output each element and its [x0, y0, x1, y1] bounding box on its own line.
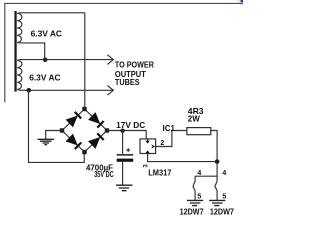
wire: bridge minus to ground	[46, 131, 62, 139]
node: adj / resistor junction	[215, 159, 220, 164]
node: bridge bottom vertex	[82, 150, 86, 154]
scan artifact (top-right corner)	[237, 0, 243, 7]
wire: branch to tube 1 heater	[195, 175, 217, 177]
arrowhead lower	[107, 86, 113, 96]
transformer winding 6.3V AC (upper)	[17, 13, 22, 43]
ground (bridge negative)	[38, 139, 55, 144]
arrowhead upper	[107, 55, 113, 65]
svg-text:2W: 2W	[188, 114, 201, 124]
wire: LM317 adj pin down and right	[148, 154, 218, 162]
node: bridge right vertex	[105, 128, 109, 132]
svg-text:LM317: LM317	[148, 169, 172, 178]
wire: heater feed down	[216, 162, 218, 182]
svg-text:2: 2	[160, 140, 164, 147]
svg-text:5: 5	[222, 194, 226, 201]
capacitor C1 plus sign	[126, 148, 130, 152]
capacitor C1 top plate	[117, 154, 134, 156]
wire: resistor right down to adj node	[211, 131, 217, 162]
wire: bridge plus 17V DC rail to LM317 input	[107, 131, 146, 139]
node: junction to bridge AC2	[27, 88, 32, 93]
wire: upper winding bottom jog	[20, 43, 45, 60]
pin 3 input arrow (top, pointing down)	[147, 139, 149, 141]
svg-text:35V DC: 35V DC	[94, 170, 114, 179]
ground (tube V2)	[209, 200, 225, 205]
capacitor C1 lower lead	[122, 162, 124, 185]
tube V1 heater filament	[193, 176, 195, 200]
border frame (left edge)	[4, 3, 6, 102]
op-amp regulator IC1 LM317 box	[140, 139, 156, 154]
wire: AC2 route down and across to bridge bottom vertex	[29, 90, 85, 162]
svg-text:3: 3	[144, 164, 150, 168]
svg-text:12DW7: 12DW7	[210, 207, 234, 216]
diode D3 (left to bottom)	[67, 135, 82, 150]
svg-text:6.3V AC: 6.3V AC	[29, 73, 60, 83]
transformer T1 core	[14, 11, 16, 92]
wire: upper winding top to bridge (top AC)	[20, 12, 85, 14]
diode D4 (bottom to right)	[89, 133, 104, 148]
svg-text:TO POWER: TO POWER	[115, 61, 154, 70]
capacitor C1 bottom plate	[117, 159, 134, 162]
resistor R1 4R3 2W body	[187, 128, 211, 135]
bridge rectifier diamond	[62, 109, 107, 152]
wire: pin2 output up to resistor	[156, 131, 187, 147]
tube V2 heater filament	[215, 181, 217, 200]
svg-text:4: 4	[197, 170, 201, 177]
diode D1 (left to top)	[67, 112, 82, 127]
ground (tube V1)	[187, 200, 203, 205]
svg-text:6.3V AC: 6.3V AC	[31, 29, 62, 39]
wire: lower winding bottom to arrow (lower)	[20, 89, 114, 91]
capacitor C1 lead	[122, 131, 124, 154]
svg-text:4: 4	[222, 170, 226, 177]
border frame (top edge)	[4, 2, 243, 4]
node: junction winding1-bottom / winding2-top	[43, 58, 48, 63]
transformer winding 6.3V AC (lower)	[17, 60, 22, 91]
svg-text:IC1: IC1	[163, 124, 176, 133]
ground (capacitor)	[116, 185, 132, 191]
svg-text:TUBES: TUBES	[115, 78, 140, 87]
adj pin arrow (bottom, pointing up)	[145, 150, 149, 153]
pin 2 output arrow (right, pointing right)	[151, 144, 155, 148]
node: bridge top vertex	[82, 107, 86, 111]
svg-text:17V DC: 17V DC	[116, 121, 145, 130]
diode D2 (top to right)	[89, 113, 104, 128]
svg-text:12DW7: 12DW7	[180, 207, 204, 216]
node: bridge left vertex	[60, 128, 64, 132]
wire: vertical down to bridge top vertex	[84, 13, 86, 109]
node: junction 17V rail / capacitor	[120, 129, 124, 133]
wire: center tap line to power output tubes (upper arrow)	[20, 59, 114, 61]
svg-text:5: 5	[197, 194, 201, 201]
